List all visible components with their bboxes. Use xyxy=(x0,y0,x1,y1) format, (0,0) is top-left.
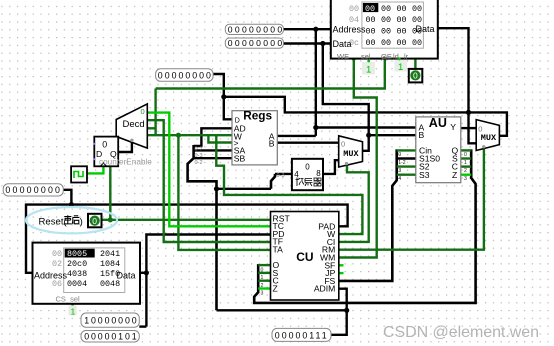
svg-text:lr: lr xyxy=(404,52,409,61)
svg-text:2: 2 xyxy=(464,168,467,174)
svg-text:00: 00 xyxy=(52,249,62,259)
counter counterEnable xyxy=(93,137,118,167)
svg-text:1-2: 1-2 xyxy=(398,160,406,166)
wire AU C branch xyxy=(461,165,471,167)
svg-text:0: 0 xyxy=(413,71,418,81)
wire AU Z branch xyxy=(461,173,471,175)
svg-text:0-3: 0-3 xyxy=(277,173,285,179)
svg-text:00000101: 00000101 xyxy=(84,332,138,342)
junction reset xyxy=(108,217,113,222)
svg-text:Data: Data xyxy=(416,24,435,34)
svg-text:00: 00 xyxy=(412,4,422,14)
wire expander out to MUX2 xyxy=(323,160,339,174)
svg-text:WE: WE xyxy=(337,52,349,61)
svg-text:2041: 2041 xyxy=(100,249,120,259)
wire TA net xyxy=(178,135,270,250)
wire CU SF stub xyxy=(339,264,344,266)
expander sign extender xyxy=(292,159,323,190)
clock CLK xyxy=(71,166,87,182)
svg-text:Address: Address xyxy=(333,25,367,35)
junction dots green xyxy=(108,56,356,222)
wire CU O branch xyxy=(258,264,270,266)
wire RST net xyxy=(101,219,270,221)
wire Regs SB xyxy=(194,157,232,159)
svg-text:00: 00 xyxy=(397,27,407,37)
splitter S2 spine xyxy=(271,174,275,189)
svg-text:8005: 8005 xyxy=(67,249,87,259)
svg-text:MUX: MUX xyxy=(481,133,497,143)
svg-text:CU: CU xyxy=(296,250,313,264)
wire ROM sel stub xyxy=(71,304,73,307)
svg-text:04: 04 xyxy=(349,15,359,25)
svg-text:SB: SB xyxy=(234,154,246,164)
svg-text:sel: sel xyxy=(361,52,371,61)
wire CU Z branch xyxy=(258,287,270,289)
wire Regs A up xyxy=(277,135,316,137)
svg-text:Z: Z xyxy=(273,284,278,294)
svg-text:06: 06 xyxy=(52,279,62,289)
svg-text:B: B xyxy=(269,139,275,149)
wire Decd out3 stub xyxy=(148,127,156,129)
svg-text:00: 00 xyxy=(381,38,391,48)
bright green wires xyxy=(87,113,471,289)
junction dots black xyxy=(69,27,471,313)
junction writeback D xyxy=(221,94,226,99)
pin value label ld 1 xyxy=(395,58,408,73)
svg-text:00: 00 xyxy=(366,38,376,48)
wire Cin branch xyxy=(397,149,416,151)
wire P3 to Regs D xyxy=(213,74,232,119)
svg-text:0004: 0004 xyxy=(67,279,87,289)
junction TA W xyxy=(176,133,181,138)
wire W net from Decd out4 xyxy=(148,134,232,136)
svg-text:00: 00 xyxy=(412,38,422,48)
wires layer xyxy=(26,28,507,335)
wire Regs B to MUX xyxy=(277,141,338,143)
junction data bus xyxy=(466,110,471,115)
svg-text:S3: S3 xyxy=(419,170,430,180)
junction PAD pin xyxy=(69,202,74,207)
wire WM net xyxy=(339,59,377,258)
svg-text:00000000: 00000000 xyxy=(228,25,285,35)
wire P5 stub xyxy=(139,325,146,327)
svg-text:0: 0 xyxy=(261,267,264,273)
svg-text:0: 0 xyxy=(102,139,107,149)
svg-text:ld: ld xyxy=(393,52,399,61)
wire ADIM net xyxy=(331,289,347,335)
svg-text:0048: 0048 xyxy=(100,279,120,289)
splitter labels gray xyxy=(195,147,285,180)
svg-text:ADIM: ADIM xyxy=(314,284,335,294)
svg-text:00: 00 xyxy=(349,4,359,14)
svg-text:Decd: Decd xyxy=(123,119,145,130)
splitter S4 spine xyxy=(254,149,475,303)
junction A bus xyxy=(313,125,318,130)
input pin P6 xyxy=(81,331,139,343)
svg-text:B: B xyxy=(419,130,425,140)
wire AU Q branch xyxy=(461,149,471,151)
svg-text:): ) xyxy=(80,216,83,227)
wire RAM data right down xyxy=(438,28,476,143)
dark green wires xyxy=(73,59,484,307)
wire green drop to Decd out3 xyxy=(154,89,156,135)
wire S3 branch xyxy=(397,173,416,175)
wire address bus vertical xyxy=(315,29,317,136)
pin value label sel 1 xyxy=(362,60,375,76)
svg-text:0: 0 xyxy=(305,162,310,171)
control unit CU xyxy=(271,212,339,301)
svg-text:counterEnable: counterEnable xyxy=(99,158,152,167)
svg-text:4: 4 xyxy=(294,170,299,179)
wire FS net xyxy=(339,149,397,281)
junction P2 bus xyxy=(320,41,325,46)
wire AU A input xyxy=(316,126,416,128)
svg-text:0: 0 xyxy=(464,152,467,158)
svg-text:10000000: 10000000 xyxy=(84,316,138,326)
svg-text:00: 00 xyxy=(397,38,407,48)
output pin P1 xyxy=(225,24,284,34)
svg-text:4: 4 xyxy=(398,176,401,182)
input pin Reset xyxy=(26,207,117,233)
wire green bus y88 xyxy=(156,59,385,89)
junction instr field xyxy=(214,186,219,191)
wire P1 to RAM Address xyxy=(283,28,330,30)
input pin P4 xyxy=(3,184,63,196)
multiplexer MUX1 xyxy=(339,136,363,167)
wire W net down to CU W xyxy=(216,135,362,234)
svg-text:0: 0 xyxy=(141,107,145,116)
wire counter Q to Decd sel xyxy=(118,142,132,153)
svg-text:20c0: 20c0 xyxy=(67,259,87,269)
svg-text:MUX: MUX xyxy=(343,149,359,159)
wire CI net xyxy=(339,163,369,242)
svg-text:Reset(: Reset( xyxy=(39,216,68,227)
svg-text:TA: TA xyxy=(273,245,284,255)
wire PD net xyxy=(146,235,270,327)
svg-text:00000000: 00000000 xyxy=(228,38,285,48)
svg-text:1: 1 xyxy=(398,62,403,73)
svg-text:3: 3 xyxy=(398,168,401,174)
wire jog to Regs clock xyxy=(208,135,232,142)
output pin P2 xyxy=(225,38,284,48)
register file Regs xyxy=(232,109,277,165)
svg-text:00000000: 00000000 xyxy=(158,70,213,80)
svg-text:CSDN @element.wen: CSDN @element.wen xyxy=(383,324,539,341)
svg-text:8: 8 xyxy=(316,169,321,178)
wire ROM data out xyxy=(140,272,146,274)
svg-text:00000000: 00000000 xyxy=(5,185,62,195)
svg-text:0-3: 0-3 xyxy=(195,153,203,159)
wire CU JP stub xyxy=(339,272,344,274)
wire splitter to expander xyxy=(275,173,292,175)
wire AU S branch xyxy=(461,157,471,159)
svg-text:0: 0 xyxy=(478,124,482,133)
svg-text:00: 00 xyxy=(365,4,375,14)
junction B bus xyxy=(366,133,371,138)
svg-text:Data: Data xyxy=(117,270,136,280)
svg-text:00: 00 xyxy=(397,4,407,14)
wire RM net xyxy=(339,147,484,250)
input pin clr 0 xyxy=(409,69,423,83)
svg-text:00: 00 xyxy=(366,15,376,25)
svg-text:00: 00 xyxy=(381,4,391,14)
wire writeback bus xyxy=(224,97,507,136)
svg-text:Data: Data xyxy=(333,39,352,49)
svg-text:Address: Address xyxy=(34,270,68,280)
RAM U1 xyxy=(331,0,438,61)
wire S1S0 branch xyxy=(397,157,416,159)
splitter bit labels green xyxy=(261,152,468,297)
wire counter reset xyxy=(109,166,111,220)
svg-text:1: 1 xyxy=(261,275,264,281)
input pin P7 xyxy=(272,328,331,341)
junction ROM data xyxy=(144,270,149,275)
svg-text:3: 3 xyxy=(261,291,264,297)
junction RAM WE xyxy=(352,56,356,60)
wire Decd out2 TF net xyxy=(148,120,271,242)
multiplexer MUX2 xyxy=(476,120,499,151)
wire Regs AD xyxy=(194,128,232,146)
svg-text:2: 2 xyxy=(261,283,264,289)
svg-text:4038: 4038 xyxy=(67,269,87,279)
wire instr field to expander splitter xyxy=(217,188,272,190)
wire P4 to PAD bus xyxy=(63,190,71,205)
svg-text:1: 1 xyxy=(366,64,371,75)
splitter S1 spine xyxy=(188,145,217,310)
wire RAM clr xyxy=(414,59,416,69)
pin value label CS_sel 1 xyxy=(69,305,77,316)
svg-text:00000111: 00000111 xyxy=(275,330,329,340)
wire P2 to RAM Data left xyxy=(283,42,330,44)
wire Regs SA xyxy=(194,149,232,151)
output pin P3 xyxy=(156,69,214,82)
svg-text:00: 00 xyxy=(381,27,391,37)
svg-text:0-7: 0-7 xyxy=(195,147,203,153)
svg-text:Y: Y xyxy=(450,122,456,132)
wire data branch down xyxy=(323,44,369,151)
svg-text:0: 0 xyxy=(92,216,97,226)
svg-text:02: 02 xyxy=(52,259,62,269)
svg-text:0: 0 xyxy=(341,140,345,149)
wire AU Y to MUX xyxy=(461,127,476,129)
wire instr low bus xyxy=(217,309,347,311)
svg-text:1: 1 xyxy=(464,160,467,166)
wire clock to counter xyxy=(87,166,103,173)
decoder Decd xyxy=(116,104,147,148)
wire Decd out1 TC net xyxy=(148,113,271,227)
svg-text:CS_sel: CS_sel xyxy=(56,295,81,304)
svg-text:3: 3 xyxy=(464,176,467,182)
svg-text:1084: 1084 xyxy=(100,259,120,269)
wire CU S branch xyxy=(258,272,270,274)
junction ADIM xyxy=(344,308,349,313)
svg-text:1: 1 xyxy=(71,306,76,316)
svg-text:0: 0 xyxy=(398,152,401,158)
input pin P5 xyxy=(81,313,139,327)
junction P1 bus xyxy=(313,27,318,32)
svg-text:AU: AU xyxy=(429,116,447,130)
svg-text:Regs: Regs xyxy=(243,109,272,123)
wire AU B input xyxy=(369,134,416,136)
svg-text:0-2: 0-2 xyxy=(195,160,203,166)
ALU AU xyxy=(416,116,461,183)
ROM U2 xyxy=(33,243,141,304)
svg-text:00: 00 xyxy=(366,27,376,37)
wire CU C branch xyxy=(258,280,270,282)
svg-text:00: 00 xyxy=(397,15,407,25)
svg-text:00: 00 xyxy=(381,15,391,25)
wire S2 branch xyxy=(397,165,416,167)
wire PAD net xyxy=(26,205,348,273)
svg-text:Z: Z xyxy=(452,170,457,180)
